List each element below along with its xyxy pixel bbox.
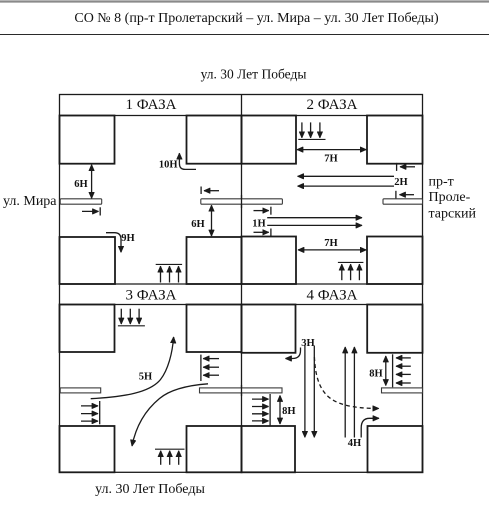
svg-text:ул. 30 Лет Победы: ул. 30 Лет Победы <box>95 482 205 497</box>
svg-text:1Н: 1Н <box>252 219 265 230</box>
svg-text:7Н: 7Н <box>324 238 337 249</box>
svg-text:6Н: 6Н <box>191 219 204 230</box>
svg-text:2 ФАЗА: 2 ФАЗА <box>307 97 358 113</box>
svg-text:4 ФАЗА: 4 ФАЗА <box>307 288 358 304</box>
svg-text:5Н: 5Н <box>139 372 152 383</box>
svg-text:7Н: 7Н <box>324 154 337 165</box>
svg-text:8Н: 8Н <box>282 406 295 417</box>
svg-text:6Н: 6Н <box>74 179 87 190</box>
svg-text:пр-т: пр-т <box>429 174 454 189</box>
svg-text:Проле-: Проле- <box>429 190 471 205</box>
svg-text:3 ФАЗА: 3 ФАЗА <box>126 288 177 304</box>
svg-text:2Н: 2Н <box>394 177 407 188</box>
svg-text:ул. Мира: ул. Мира <box>3 194 57 209</box>
svg-text:3Н: 3Н <box>301 338 314 349</box>
svg-text:9Н: 9Н <box>121 233 134 244</box>
svg-text:1 ФАЗА: 1 ФАЗА <box>126 97 177 113</box>
svg-text:ул. 30 Лет Победы: ул. 30 Лет Победы <box>201 67 307 82</box>
svg-text:СО № 8 (пр-т Пролетарский – ул: СО № 8 (пр-т Пролетарский – ул. Мира – у… <box>74 11 439 26</box>
svg-text:10Н: 10Н <box>159 160 178 171</box>
svg-text:4Н: 4Н <box>348 438 361 449</box>
svg-text:тарский: тарский <box>429 207 477 222</box>
svg-text:8Н: 8Н <box>369 369 382 380</box>
